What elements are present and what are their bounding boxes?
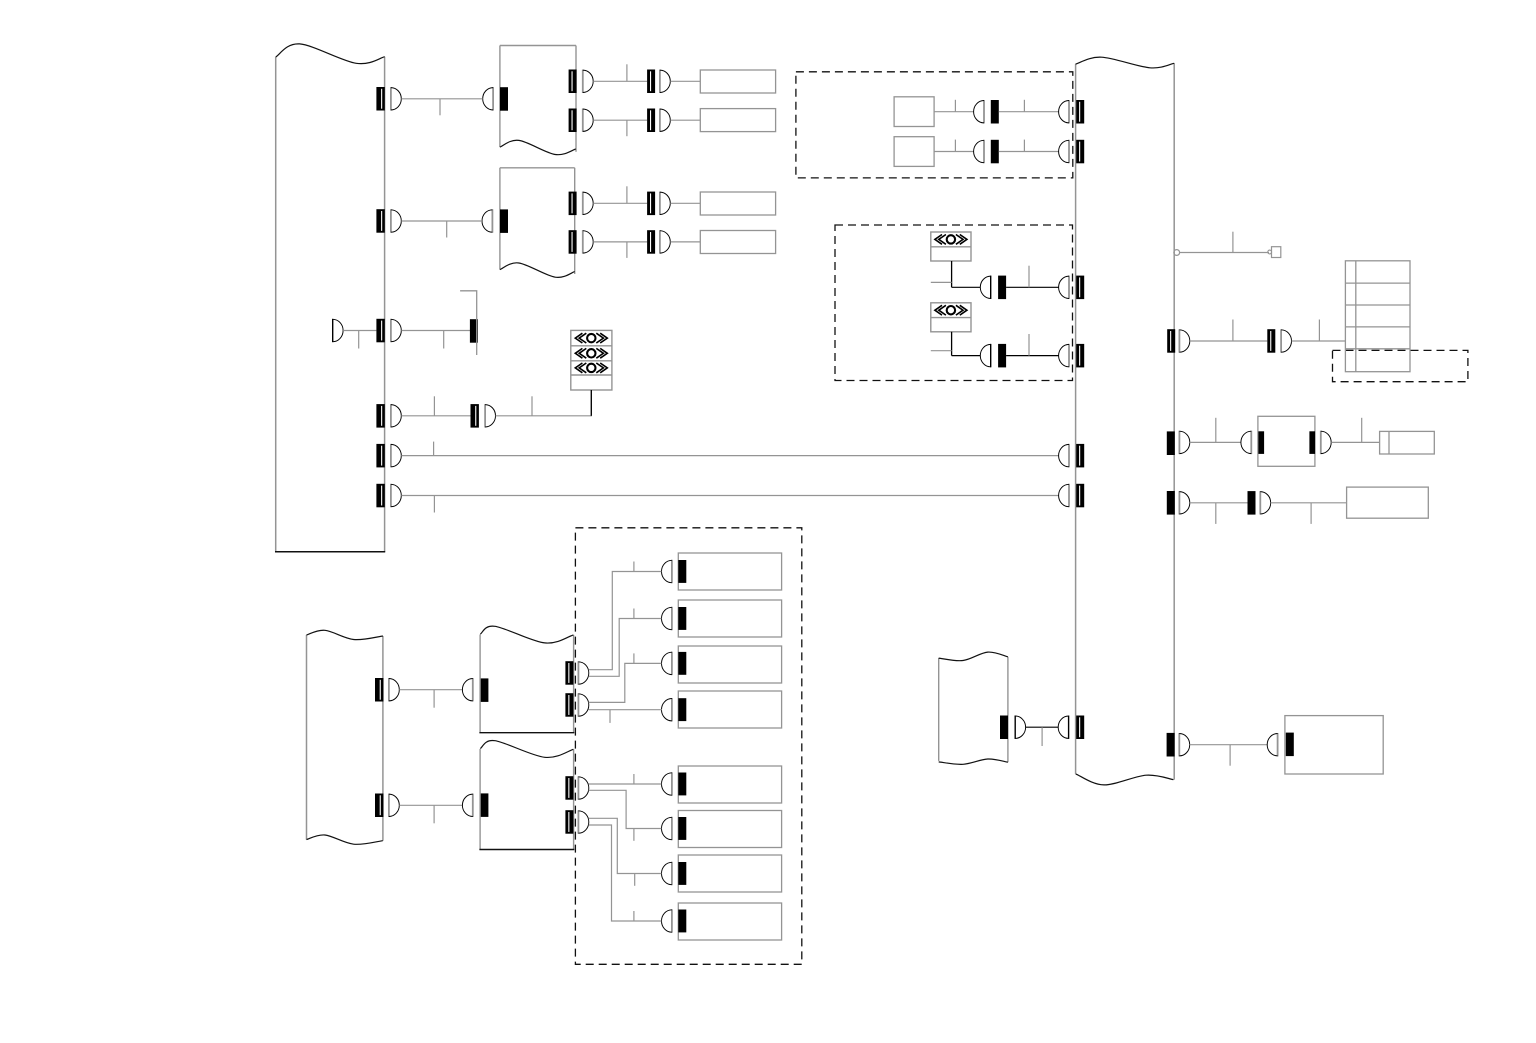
cable W13 from J-B4-a to T5 <box>589 783 662 785</box>
cable W22 to equipment box <box>1271 502 1347 504</box>
plug facing socket on V1 cable <box>980 276 990 299</box>
indicator device D1 (stack of 3 signal lamps) <box>571 330 612 390</box>
inline plug and socket on U1 cable <box>974 100 984 123</box>
plug of X16 <box>1179 733 1189 756</box>
cable W17 from X12 to inline pair <box>1190 340 1268 342</box>
plug facing panel P2 <box>1058 716 1068 739</box>
cable from U1 to inline connector <box>934 111 974 113</box>
junction box B5 (bottom middle, broken top and bottom) <box>938 658 940 761</box>
cable W18 from X13 to terminal strip <box>1292 340 1346 342</box>
inline socket bar on W21 <box>1248 491 1256 514</box>
cable marker tick on W13 <box>633 774 635 784</box>
mated connector on panel P2 left edge <box>1059 100 1069 123</box>
load box LB2 <box>700 109 775 132</box>
inline mated pair X5 on cable W4 <box>471 404 479 428</box>
socket bar inside DV2 <box>1286 733 1294 757</box>
cable from J-B2-a to inline pair <box>593 202 647 204</box>
cable from J-B1-a to inline pair <box>593 80 647 82</box>
mated connector X8 on panel P1 (row 6) <box>376 484 384 508</box>
plug facing device box DV2 <box>1267 733 1277 756</box>
connector socket J-B2-in on box B2 left edge <box>500 209 508 233</box>
mated connector X9 on panel P2 left edge (row 6) <box>1059 484 1069 507</box>
cable to panel P2 connector <box>999 151 1059 153</box>
plug facing T4 <box>662 698 672 721</box>
cable W23 from B5 to panel P2 <box>1026 726 1059 728</box>
cable marker tick <box>1028 266 1030 288</box>
cable marker tick <box>626 242 628 258</box>
cable W19 from X14 to bulkhead box <box>1190 441 1241 443</box>
branch stub at V2 <box>931 350 952 352</box>
dashed enclosure zone Z3 (right, terminal strip) <box>1333 350 1468 381</box>
small connector circle at stub end <box>1268 250 1272 254</box>
plug P-B4-in facing box B4 <box>462 794 472 817</box>
socket bar on V1 cable <box>998 276 1006 300</box>
dashed enclosure zone Z2 (middle right) <box>835 225 1073 381</box>
cable marker tick on W6 <box>433 496 435 513</box>
cable marker tick on W12 <box>609 710 611 723</box>
mated connector on panel P2 left edge (bottom) <box>1076 716 1084 740</box>
plug facing T6 <box>662 817 672 840</box>
break wave on box B3 top <box>480 626 573 643</box>
cable from socket to panel P2 <box>1006 286 1059 288</box>
mated connector X7 on panel P2 left edge (row 5) <box>1059 444 1069 467</box>
mated pair J-B3-b <box>565 693 573 717</box>
mated pair J-B2-b <box>569 230 577 254</box>
connector socket X15 on panel P2 right edge <box>1167 491 1175 515</box>
lead wire to plug <box>952 355 981 357</box>
load box LB3 <box>700 192 775 215</box>
connector socket X16 on panel P2 right edge (bottom) <box>1167 733 1175 757</box>
indicator glyph D1-1 <box>575 333 607 343</box>
mated pair J-B4-a on box B4 right edge <box>565 776 573 800</box>
load box LB4 <box>700 231 775 254</box>
cable to load box LB2 <box>670 119 700 121</box>
cable marker tick <box>1028 334 1030 356</box>
cable W20 from BH1 to device box <box>1331 441 1379 443</box>
inline mated pair X13 on cable W17 <box>1267 329 1275 353</box>
cable to load box LB1 <box>670 80 700 82</box>
mated connector X3 on panel P1 (row 3) <box>376 319 384 343</box>
device box DV2 (bottom right) <box>1285 716 1383 774</box>
cable marker tick <box>954 100 956 112</box>
terminal unit T1 in zone Z4 <box>678 553 781 590</box>
connector socket J-B3-in on box B3 left edge <box>480 678 488 702</box>
terminal unit T7 in zone Z4 <box>678 855 781 892</box>
indicator glyph D1-2 <box>575 348 607 358</box>
cable marker tick on W4b <box>531 396 533 416</box>
connector socket on box B5 right edge <box>1000 716 1008 740</box>
cable marker tick <box>954 140 956 152</box>
plug P-B1-in facing box B1 <box>483 87 493 110</box>
cable W1 from X1 to box B1 <box>401 98 482 100</box>
cable W8 from X11 to box B4 <box>399 804 462 806</box>
inline mated pair on B1 row a <box>647 70 655 94</box>
connector socket J-B1-in on box B1 left edge <box>500 87 508 111</box>
mated connector X6 on panel P1 (row 5) <box>376 444 384 468</box>
cable marker tick on W3a <box>358 331 360 349</box>
cable from socket to panel P2 <box>1006 355 1059 357</box>
plug P-B3-in facing box B3 <box>462 678 472 701</box>
connector socket on T1 <box>678 560 686 583</box>
socket bar inside BH1 right <box>1309 431 1315 454</box>
mated pair J-B3-a on box B3 right edge <box>565 661 573 685</box>
valve indicator device V2 in zone Z2 <box>931 303 971 332</box>
bulkhead box BH1 <box>1258 416 1315 466</box>
terminal strip TS1 (right) <box>1345 261 1410 372</box>
control unit U1 in zone Z1 <box>894 97 934 127</box>
plug facing T8 <box>662 909 672 932</box>
junction box B2 (second, broken bottom) <box>499 168 501 270</box>
connector socket on T5 <box>678 773 686 796</box>
cable marker tick <box>1023 100 1025 112</box>
mated connector X1 on panel P1 (row 1) <box>376 87 384 111</box>
cable marker tick <box>626 120 628 136</box>
break wave on panel P1 top <box>276 44 385 64</box>
cable marker tick on W15 <box>634 874 636 886</box>
cable W15 from J-B4-b to T7 <box>589 818 662 873</box>
break wave on box B4 top <box>480 741 573 758</box>
cable marker tick on W23 <box>1041 727 1043 746</box>
control unit U2 in zone Z1 <box>894 137 934 167</box>
socket bar on V2 cable <box>998 344 1006 368</box>
equipment box EQ1 <box>1347 487 1429 518</box>
break wave on panel P3 top <box>307 630 383 639</box>
plug leaving bulkhead box right <box>1321 431 1331 454</box>
cable to load box LB3 <box>670 202 700 204</box>
connector socket on T4 <box>678 698 686 721</box>
cable marker tick on W3b <box>443 331 445 349</box>
cable W7 from X10 to box B3 <box>399 689 462 691</box>
cable marker tick on W8 <box>433 805 435 823</box>
cabinet panel P3 (bottom left, broken top and bottom) <box>306 635 308 840</box>
cable marker tick on W16 <box>633 911 635 921</box>
mated pair J-B4-b <box>565 810 573 834</box>
lead wire to plug <box>952 286 981 288</box>
cable to load box LB4 <box>670 241 700 243</box>
cable from J-B2-b to inline pair <box>593 241 647 243</box>
mated connector X12 on panel P2 right edge <box>1167 329 1175 353</box>
loose plug P5 (row 3 left) <box>333 319 343 342</box>
cabinet panel P2 (right, broken top and bottom) <box>1075 64 1077 774</box>
break wave on panel P2 top <box>1076 57 1175 68</box>
dashed enclosure zone Z1 (top right) <box>796 72 1073 178</box>
cable marker tick on W14 <box>633 829 635 841</box>
cable W16 from J-B4-b to T8 <box>589 825 662 921</box>
mated pair J-B2-a on box B2 right edge <box>569 192 577 216</box>
cable marker tick on W24 <box>1229 745 1231 766</box>
cable marker tick on W1 <box>439 99 441 116</box>
cable marker tick on W5 <box>433 442 435 456</box>
cable marker tick on W20 <box>1361 418 1363 443</box>
connector socket J-BR on mounting bracket <box>470 319 478 343</box>
cable W3b from X3 to bracket connector <box>401 330 470 332</box>
connector socket on T3 <box>678 652 686 675</box>
cable marker tick on W19 <box>1215 418 1217 443</box>
cable W4a from X4 to inline pair <box>401 415 470 417</box>
dashed enclosure zone Z4 (bottom middle) <box>575 528 801 965</box>
junction box B1 (top, broken bottom) <box>499 46 501 148</box>
terminal unit T2 in zone Z4 <box>678 600 781 637</box>
stub cable from node circle <box>1180 252 1269 254</box>
break wave on panel P2 bottom <box>1076 774 1174 785</box>
cable W3a from plug P5 to panel P1 connector X3 <box>343 330 376 332</box>
connector socket X14 on panel P2 right edge <box>1167 431 1175 455</box>
mated connector X2 on panel P1 (row 2) <box>376 209 384 233</box>
terminal unit T6 in zone Z4 <box>678 811 781 848</box>
cable W14 from J-B4-a to T6 <box>589 790 662 828</box>
connector rows on box B1 right edge: mated pair J-B1-a <box>569 70 577 94</box>
terminal unit T4 in zone Z4 <box>678 691 781 728</box>
plug facing T1 <box>662 560 672 583</box>
node circle on panel P2 right edge <box>1174 250 1180 256</box>
cable from J-B1-b to inline pair <box>593 119 647 121</box>
mated connector on panel P2 left edge <box>1059 140 1069 163</box>
cable to panel P2 connector <box>999 111 1059 113</box>
load box LB1 <box>700 70 775 93</box>
cable W21 from X15 to inline connector <box>1190 502 1248 504</box>
cable marker tick on W2 <box>446 221 448 238</box>
cable marker tick on W17 <box>1232 320 1234 342</box>
connector socket on T7 <box>678 862 686 885</box>
cable marker tick on W21 <box>1215 503 1217 524</box>
plug facing T5 <box>662 772 672 795</box>
indicator glyph D1-3 <box>575 363 607 373</box>
cable W10 from J-B3-a to T2 <box>589 619 662 677</box>
break wave on box B2 bottom <box>500 263 575 278</box>
cable marker tick <box>626 64 628 81</box>
cable marker tick on W10 <box>633 609 635 619</box>
cabinet panel P1 (left, broken top) <box>275 57 277 552</box>
connector socket on T6 <box>678 817 686 840</box>
break wave on panel P3 bottom <box>307 835 383 844</box>
inline mated pair on B2 row a <box>647 192 655 216</box>
cable W12 from J-B3-b to T4 <box>589 709 662 711</box>
inline plug on W21 <box>1260 491 1270 514</box>
terminal unit T5 in zone Z4 <box>678 766 781 803</box>
plug facing T2 <box>662 607 672 630</box>
indicator glyph V2 <box>935 305 967 315</box>
cable marker tick on W22 <box>1310 503 1312 524</box>
plug facing T7 <box>662 862 672 885</box>
plug of X14 <box>1179 431 1189 454</box>
mated pair J-B1-b <box>569 109 577 133</box>
mated connector X4 on panel P1 (row 4) <box>376 404 384 428</box>
cable W11 from J-B3-b to T3 <box>589 663 662 702</box>
cable marker tick on W7 <box>433 690 435 708</box>
socket bar inside BH1 left <box>1258 431 1264 454</box>
device V1 lead down <box>951 261 953 287</box>
cable from U2 to inline connector <box>934 151 974 153</box>
cable marker tick on W4a <box>433 396 435 416</box>
valve indicator device V1 in zone Z2 <box>931 232 971 261</box>
plug of X15 <box>1179 491 1189 514</box>
break wave on box B5 bottom <box>939 759 1008 764</box>
plug facing bulkhead box left <box>1241 431 1251 454</box>
plug leaving box B5 <box>1015 716 1025 739</box>
terminal unit T8 in zone Z4 <box>678 903 781 940</box>
small device square at stub end <box>1272 247 1281 258</box>
plug facing socket on V2 cable <box>980 344 990 367</box>
connector socket on T8 <box>678 910 686 933</box>
long cable W5 from P1 to P2 <box>401 455 1058 457</box>
inline mated pair on B2 row b <box>647 230 655 254</box>
cable marker tick on W9 <box>633 562 635 572</box>
cable W24 from X16 to device box DV2 <box>1190 744 1268 746</box>
mated connector X11 on panel P3 (lower row) <box>375 794 383 818</box>
device box DV1 (right) <box>1380 431 1435 454</box>
inline mated pair on B1 row b <box>647 109 655 133</box>
junction box B4 (broken top) <box>479 749 481 850</box>
branch stub at V1 <box>931 281 952 283</box>
cable W9 from J-B3-a to T1 <box>589 572 662 670</box>
cable W2 from X2 to box B2 <box>401 220 482 222</box>
plug P-B2-in facing box B2 <box>482 209 492 232</box>
junction box B3 (broken top) <box>479 635 481 733</box>
device D1 lead wire <box>590 390 592 416</box>
connector socket on T2 <box>678 607 686 630</box>
mounting bracket line <box>460 291 477 355</box>
mated connector on panel P2 left edge <box>1059 344 1069 367</box>
cable marker tick <box>626 186 628 203</box>
break wave on box B1 bottom <box>500 140 576 154</box>
mated connector on panel P2 left edge <box>1059 276 1069 299</box>
terminal unit T3 in zone Z4 <box>678 646 781 683</box>
cable marker tick on W18 <box>1318 320 1320 342</box>
break wave on box B5 top <box>939 652 1008 661</box>
plug facing T3 <box>662 652 672 675</box>
cable marker tick on W11 <box>633 653 635 663</box>
mated connector X10 on panel P3 (upper row) <box>375 678 383 702</box>
cable marker tick on stub cable <box>1232 232 1234 253</box>
inline plug and socket on U2 cable <box>974 140 984 163</box>
connector socket J-B4-in on box B4 left edge <box>480 793 488 817</box>
indicator glyph V1 <box>935 235 967 245</box>
device V2 lead down <box>951 332 953 356</box>
cable W4b from X5 to indicator stack <box>496 390 592 416</box>
long cable W6 from P1 to P2 <box>401 495 1058 497</box>
cable marker tick <box>1023 140 1025 152</box>
